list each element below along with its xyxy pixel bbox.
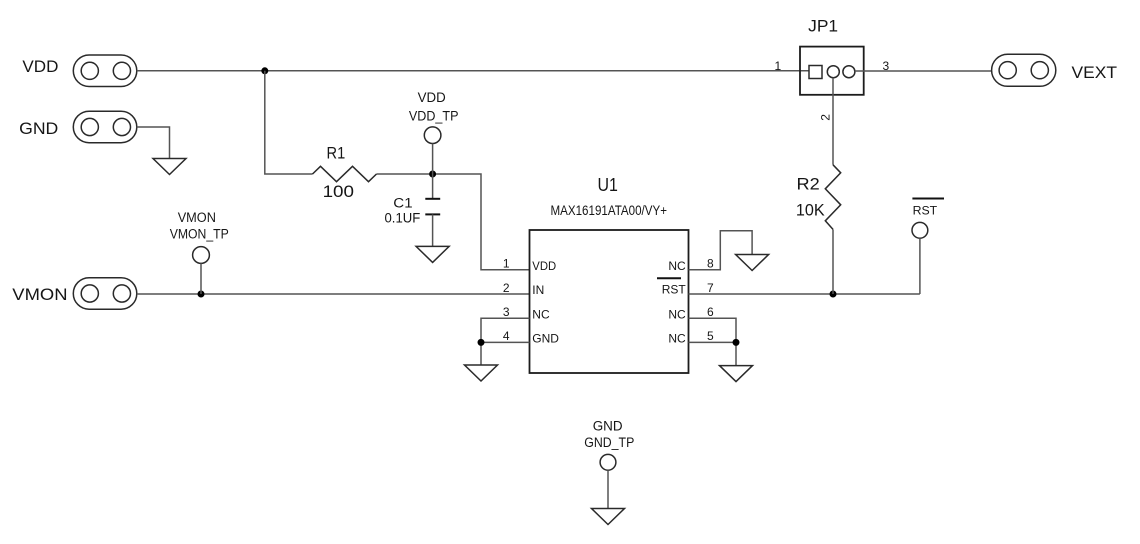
wire junction to C1 <box>432 174 434 199</box>
pin number 2 (JP1, rotated) <box>819 114 833 121</box>
ground symbol (GND_TP) <box>592 509 625 525</box>
svg-text:IN: IN <box>532 283 544 297</box>
wire VMON_TP to junction <box>200 263 202 294</box>
svg-text:U1: U1 <box>598 175 618 195</box>
ground symbol (C1) <box>416 246 449 262</box>
value 10K <box>796 201 825 220</box>
svg-text:NC: NC <box>668 259 686 273</box>
wire U1 pin 6 to pin 5 net <box>689 318 737 342</box>
wire U1 pin 5 to ground <box>689 342 737 365</box>
svg-text:C1: C1 <box>393 195 412 210</box>
jumper JP1 body <box>800 47 864 95</box>
label VDD (test point) <box>418 90 446 105</box>
net label GND <box>19 119 58 138</box>
svg-text:100: 100 <box>323 182 354 201</box>
pin label NC (pin 8) <box>668 259 686 273</box>
label U1 <box>598 175 618 195</box>
connector VEXT (2-pad header) <box>992 54 1056 86</box>
label VDD_TP <box>409 108 459 123</box>
value 0.1UF <box>385 211 421 226</box>
svg-text:VEXT: VEXT <box>1072 63 1118 82</box>
pin number 7 <box>707 281 714 295</box>
pin label RST (pin 7) with overline <box>657 278 686 296</box>
wire JP1 pin 3 to VEXT <box>855 70 992 72</box>
junction pin3/pin4 ground net <box>478 339 485 346</box>
svg-text:8: 8 <box>707 257 714 271</box>
junction VDD rail / R1 branch <box>261 67 268 74</box>
svg-text:6: 6 <box>707 305 714 319</box>
pin number 2 <box>503 281 510 295</box>
svg-text:VMON_TP: VMON_TP <box>170 227 229 242</box>
wire C1 to ground <box>432 214 434 246</box>
ground symbol (GND connector) <box>153 159 186 175</box>
svg-text:VDD: VDD <box>22 57 58 76</box>
label R2 <box>797 175 820 194</box>
pin number 6 <box>707 305 714 319</box>
svg-text:R1: R1 <box>327 144 346 163</box>
svg-text:RST: RST <box>662 283 687 297</box>
wire VDD_TP to junction <box>432 144 434 175</box>
svg-text:R2: R2 <box>797 175 820 194</box>
wire GND connector to ground <box>137 127 170 159</box>
junction R2 / RST net <box>830 291 837 298</box>
test point RST <box>912 222 928 238</box>
svg-text:7: 7 <box>707 281 714 295</box>
svg-text:MAX16191ATA00/VY+: MAX16191ATA00/VY+ <box>551 203 668 218</box>
pin number 3 <box>503 305 510 319</box>
svg-text:10K: 10K <box>796 201 825 220</box>
wire junction down to R1 <box>265 71 313 174</box>
svg-text:GND: GND <box>532 332 559 346</box>
label C1 <box>393 195 412 210</box>
wire VMON to U1 pin 2 <box>137 293 530 295</box>
junction VMON / VMON_TP <box>198 291 205 298</box>
value MAX16191ATA00/VY+ <box>551 203 668 218</box>
wire JP1 pin 2 to R2 <box>832 78 834 165</box>
pin number 8 <box>707 257 714 271</box>
svg-text:2: 2 <box>819 114 833 121</box>
pin number 3 (JP1) <box>882 59 889 73</box>
junction pin5/pin6 ground net <box>733 339 740 346</box>
wire VDD rail to JP1 pin 1 <box>137 70 810 72</box>
ground symbol (pin 5) <box>720 366 753 382</box>
pin number 5 <box>707 329 714 343</box>
svg-text:1: 1 <box>503 257 510 271</box>
junction R1 / VDD_TP / C1 <box>429 171 436 178</box>
svg-text:4: 4 <box>503 329 510 343</box>
wire U1 pin 7 to RST test point <box>689 293 920 295</box>
svg-text:VDD_TP: VDD_TP <box>409 108 459 123</box>
capacitor C1 <box>425 199 440 215</box>
pin label NC (pin 6) <box>668 307 686 321</box>
svg-text:VDD: VDD <box>532 259 556 273</box>
wire U1 pin 8 to ground <box>689 231 753 270</box>
pin label NC (pin 3) <box>532 307 550 321</box>
label R1 <box>327 144 346 163</box>
pin label GND <box>532 332 559 346</box>
connector VDD (2-pad header) <box>73 55 137 87</box>
ground symbol (pin 8) <box>736 255 769 271</box>
IC U1 body <box>530 230 689 373</box>
svg-text:VDD: VDD <box>418 90 446 105</box>
pin number 1 (JP1) <box>774 59 781 73</box>
test point GND_TP <box>600 454 616 470</box>
svg-text:0.1UF: 0.1UF <box>385 211 421 226</box>
test point VMON_TP <box>193 247 210 264</box>
wire R1 to U1 pin 1 <box>377 174 530 270</box>
svg-text:GND: GND <box>19 119 58 138</box>
svg-text:RST: RST <box>913 203 938 217</box>
wire R2 to RST net <box>832 229 834 294</box>
connector VMON (2-pad header) <box>73 278 137 310</box>
net label VEXT <box>1072 63 1118 82</box>
value 100 <box>323 182 354 201</box>
ground symbol (U1 left) <box>465 365 498 381</box>
test point VDD_TP <box>424 127 441 144</box>
svg-text:NC: NC <box>668 332 686 346</box>
svg-text:NC: NC <box>532 307 550 321</box>
wire U1 pin 3 to pin 4 net <box>481 318 530 342</box>
label VMON (test point) <box>178 210 216 225</box>
svg-text:VMON: VMON <box>12 285 67 304</box>
pin label VDD <box>532 259 556 273</box>
svg-text:GND: GND <box>593 418 623 433</box>
svg-text:GND_TP: GND_TP <box>584 435 634 450</box>
resistor R1 <box>313 166 377 181</box>
svg-text:2: 2 <box>503 281 510 295</box>
label JP1 <box>808 17 838 36</box>
net label VDD <box>22 57 58 76</box>
pin label IN <box>532 283 544 297</box>
wire GND_TP to ground <box>607 470 609 508</box>
label VMON_TP <box>170 227 229 242</box>
label GND_TP <box>584 435 634 450</box>
svg-text:1: 1 <box>774 59 781 73</box>
label RST (test point) with overline <box>912 199 944 218</box>
wire RST test point to pin 7 net <box>919 238 921 294</box>
pin label NC (pin 5) <box>668 332 686 346</box>
wire U1 pin 4 to ground <box>481 342 530 365</box>
net label VMON <box>12 285 67 304</box>
svg-text:NC: NC <box>668 307 686 321</box>
svg-text:5: 5 <box>707 329 714 343</box>
pin number 1 <box>503 257 510 271</box>
resistor R2 <box>825 165 840 230</box>
label GND (test point) <box>593 418 623 433</box>
svg-text:JP1: JP1 <box>808 17 838 36</box>
svg-text:3: 3 <box>503 305 510 319</box>
pin number 4 <box>503 329 510 343</box>
svg-text:VMON: VMON <box>178 210 216 225</box>
connector GND (2-pad header) <box>73 111 137 143</box>
